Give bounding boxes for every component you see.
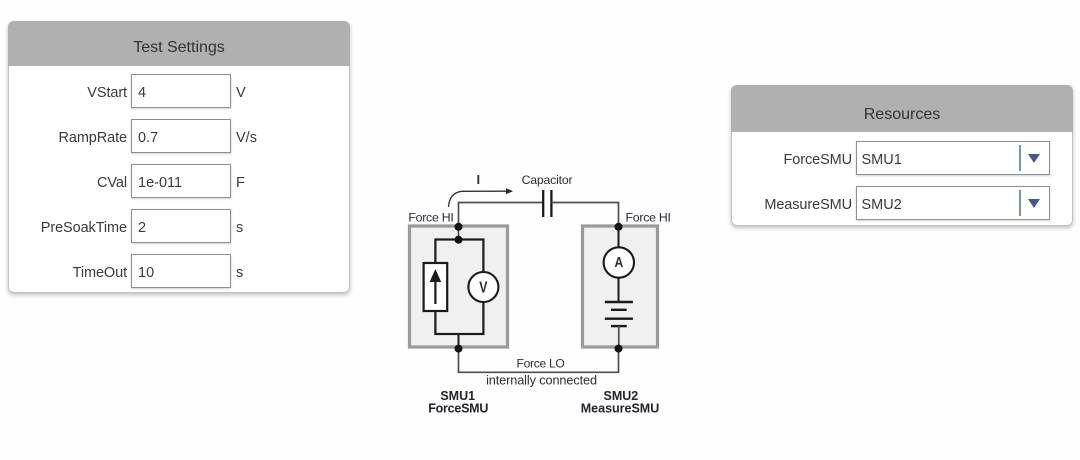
svg-text:Force HI: Force HI [626,211,671,225]
ForceSMU row [732,152,852,168]
TimeOut row [9,265,127,281]
wire: SMU1 loop bottom to box edge [458,334,460,349]
svg-text:V: V [479,280,488,297]
ammeter A [604,247,634,277]
svg-text:Capacitor: Capacitor [522,173,573,187]
SMU1 enclosure box [410,226,508,347]
svg-text:internally connected: internally connected [486,374,597,388]
capacitor plates [542,190,544,217]
PreSoakTime row [9,220,127,236]
svg-text:I: I [477,172,481,187]
svg-text:Force LO: Force LO [516,357,564,371]
svg-text:A: A [614,255,623,271]
node: SMU1 Force LO terminal [455,345,463,353]
voltmeter V [468,272,498,302]
current direction arrow I [449,191,508,207]
VStart row [9,85,127,101]
battery B1 [605,301,633,303]
node: SMU2 Force LO terminal [615,345,623,353]
wire: capacitor to SMU2 Force HI [552,203,619,228]
Test Settings panel [8,21,350,293]
svg-text:MeasureSMU: MeasureSMU [581,402,660,416]
node: SMU2 Force HI terminal [615,223,623,231]
RampRate row [9,130,127,146]
SMU2 internal wire to ammeter [618,227,620,249]
SMU2 enclosure box [583,226,658,347]
wire: ammeter to battery [618,277,620,302]
Resources panel [731,85,1073,226]
current source I1 [424,263,448,311]
wire: Force LO internally connected [459,349,619,372]
svg-text:Force HI: Force HI [408,211,453,225]
SMU1 inner loop wire [435,240,483,335]
node: SMU1 Force HI terminal [455,223,463,231]
node: SMU1 loop junction [455,236,463,244]
MeasureSMU row [732,197,852,213]
CVal row [9,175,127,191]
wire: battery to SMU2 box edge [618,326,620,349]
svg-text:ForceSMU: ForceSMU [428,402,488,416]
wire: Force HI from SMU1 to capacitor [459,203,544,241]
